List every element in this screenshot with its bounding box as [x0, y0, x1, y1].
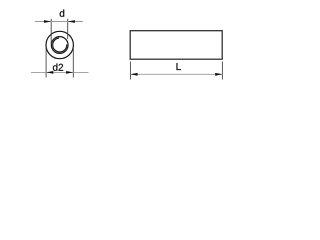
dim L: right extension line	[221, 62, 223, 80]
dim d2: dimension line with outside tails	[31, 71, 89, 73]
dim L: dimension line	[130, 73, 222, 75]
front view: hole circle (d)	[51, 37, 68, 54]
dim d2: right extension line	[72, 48, 74, 78]
front view: thread 3/4 arc	[53, 38, 67, 52]
dim L: left extension line	[129, 62, 131, 80]
dim L: left arrow (inside, tip left)	[130, 73, 137, 76]
label d2	[53, 63, 63, 70]
dim d: left arrow (outside, tip right)	[44, 20, 51, 23]
label d	[60, 9, 64, 16]
dim d2: left extension line	[45, 48, 47, 78]
dim d: left extension line	[50, 19, 52, 44]
dim d: right extension line	[67, 19, 69, 39]
front view: outer circle (d2 outline)	[46, 31, 73, 58]
side view rectangle	[130, 31, 222, 60]
dim d2: right arrow (inside, tip right)	[66, 71, 73, 74]
dim d: dimension line with outside tails	[35, 21, 83, 23]
label L	[177, 63, 181, 70]
dim L: right arrow (inside, tip right)	[215, 73, 222, 76]
dim d: right arrow (outside, tip left)	[68, 20, 75, 23]
dim d2: left arrow (inside, tip left)	[46, 71, 53, 74]
